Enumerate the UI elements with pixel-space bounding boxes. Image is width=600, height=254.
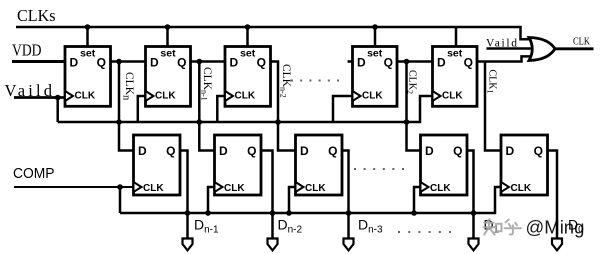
flip-flop U3b: [296, 135, 343, 195]
flip-flop U5: [433, 47, 478, 107]
svg-text:Q: Q: [97, 56, 106, 70]
svg-text:CLK: CLK: [430, 183, 451, 194]
output arrow D1: [469, 239, 479, 251]
node Q4 tap: [404, 59, 410, 65]
svg-text:CLK: CLK: [511, 183, 532, 194]
output arrow Dn-2: [268, 239, 278, 251]
wire inter-row bus: [58, 96, 433, 122]
svg-text:Q: Q: [257, 56, 266, 70]
node Q2 tap: [197, 59, 203, 65]
node combus-r3: [286, 210, 292, 216]
wire Vaild to U1 CLK: [14, 96, 66, 99]
wire riser to U4 CLK: [333, 96, 353, 122]
wire set drop to U1: [86, 27, 89, 47]
or-gate G1: [529, 38, 555, 61]
svg-text:D: D: [219, 144, 228, 158]
svg-text:set: set: [240, 48, 256, 60]
wire riser to U3 CLK: [217, 96, 225, 122]
svg-text:Vaild: Vaild: [486, 38, 517, 50]
node bus-CLK2: [404, 119, 410, 125]
wire CLKn drop to U1b D: [119, 62, 134, 151]
svg-text:D: D: [70, 56, 79, 70]
node combus-Dn-3: [346, 210, 352, 216]
wire riser to U2 CLK: [138, 96, 146, 122]
ellipsis output labels: [398, 231, 451, 233]
wire set drop to U2: [166, 27, 169, 47]
svg-text:Q: Q: [464, 56, 473, 70]
wire set drop to U4: [374, 27, 377, 47]
node combus-Dn-1: [185, 210, 191, 216]
node CLKs-set4: [372, 24, 378, 30]
node combus-D1: [471, 210, 477, 216]
svg-text:Q: Q: [177, 56, 186, 70]
wire U2 Q to U3 D: [191, 60, 226, 63]
node combus-Dn-2: [270, 210, 276, 216]
svg-text:Q: Q: [534, 144, 543, 158]
wire COMP to U1b CLK: [14, 186, 134, 188]
svg-text:CLK: CLK: [235, 91, 256, 102]
svg-text:CLK: CLK: [143, 183, 164, 194]
flip-flop U1b: [134, 135, 181, 195]
node Vaild tap: [55, 95, 61, 101]
svg-text:set: set: [80, 48, 96, 60]
wire CLKn-1 drop to U2b D: [199, 62, 214, 151]
node COMP tap: [117, 184, 123, 190]
svg-text:CLK: CLK: [442, 91, 463, 102]
watermark zhihu @Ming: [484, 217, 585, 238]
flip-flop U2b: [215, 135, 262, 195]
wire U5 Q to gate input: [477, 56, 533, 61]
wire Vaild to gate input: [487, 47, 534, 50]
ellipsis bottom row FFs: [354, 168, 404, 170]
svg-text:set: set: [447, 48, 463, 60]
svg-text:CLK: CLK: [75, 91, 96, 102]
node CLKs-set1: [85, 24, 91, 30]
svg-text:D: D: [138, 144, 147, 158]
flip-flop U4: [353, 47, 398, 107]
wire riser to U4b CLK: [414, 187, 421, 213]
wire riser to U2b CLK: [208, 187, 215, 213]
svg-text:Vaild: Vaild: [5, 81, 53, 100]
svg-text:CLK: CLK: [155, 91, 176, 102]
svg-text:set: set: [160, 48, 176, 60]
svg-text:Q: Q: [453, 144, 462, 158]
svg-text:Q: Q: [247, 144, 256, 158]
svg-text:D: D: [300, 144, 309, 158]
node bus-CLKn: [116, 119, 122, 125]
wire U3b Q to Dn-3: [342, 151, 349, 240]
wire U4 D stub: [348, 60, 353, 63]
flip-flop U3: [225, 47, 271, 107]
svg-text:set: set: [367, 48, 383, 60]
wire riser to U3b CLK: [289, 187, 296, 213]
node Q1 tap: [116, 59, 122, 65]
node bus-CLKn-2: [275, 119, 281, 125]
wire VDD to U1 D: [12, 60, 65, 63]
flip-flop U5b: [501, 135, 548, 195]
wire U4b Q to D1: [467, 151, 474, 240]
wire U5b Q to D0: [548, 151, 558, 240]
svg-text:D: D: [506, 144, 515, 158]
svg-text:CLK: CLK: [305, 183, 326, 194]
output arrow D0: [552, 239, 562, 251]
svg-text:CLK: CLK: [573, 36, 590, 48]
wire set drop to U5: [455, 27, 458, 47]
wire U1 Q to U2 D: [111, 60, 146, 63]
wire CLK gate output: [555, 47, 594, 50]
ellipsis top row: [291, 80, 339, 82]
svg-text:D: D: [230, 56, 239, 70]
wire U4 Q to U5 D: [397, 60, 433, 63]
wire COMP drop: [119, 187, 122, 213]
node combus-r2: [205, 210, 211, 216]
svg-text:Q: Q: [384, 56, 393, 70]
svg-text:VDD: VDD: [12, 41, 42, 60]
svg-text:D: D: [150, 56, 159, 70]
output arrow Dn-3: [344, 239, 354, 251]
svg-text:CLK: CLK: [362, 91, 383, 102]
wire COMP bus: [120, 187, 501, 213]
flip-flop U4b: [421, 135, 468, 195]
flip-flop U2: [146, 47, 191, 107]
wire U2b Q to Dn-2: [261, 151, 273, 240]
svg-text:Q: Q: [166, 144, 175, 158]
wire CLK1 drop to U5b D: [485, 62, 501, 151]
node CLKs-set3: [245, 24, 251, 30]
wire CLKs main line: [16, 27, 533, 39]
svg-text:D: D: [437, 56, 446, 70]
node CLKs-set2: [165, 24, 171, 30]
svg-text:D: D: [425, 144, 434, 158]
svg-text:@Ming: @Ming: [526, 217, 585, 238]
output arrow Dn-1: [183, 239, 193, 251]
svg-text:Q: Q: [328, 144, 337, 158]
wire set drop to U3: [246, 27, 249, 47]
wire U3 Q / CLKn-2 drop to U3b D: [271, 62, 296, 151]
svg-text:CLKs: CLKs: [17, 6, 56, 25]
svg-text:COMP: COMP: [13, 165, 55, 182]
wire CLK2 drop to U4b D: [407, 62, 421, 151]
svg-text:CLK: CLK: [224, 183, 245, 194]
flip-flop U1: [65, 47, 111, 107]
wire Vaild drop: [56, 98, 59, 123]
node combus-r4: [411, 210, 417, 216]
svg-text:D: D: [357, 56, 366, 70]
node bus-CLKn-1: [197, 119, 203, 125]
wire U1b Q to Dn-1: [180, 151, 188, 240]
